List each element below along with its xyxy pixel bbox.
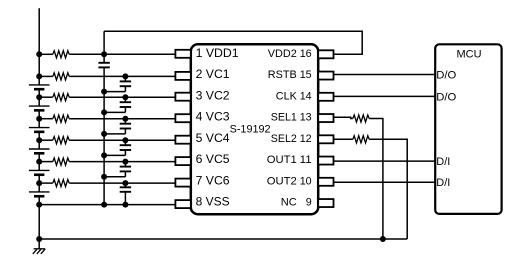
svg-text:10: 10 <box>300 175 312 187</box>
svg-text:CLK: CLK <box>276 90 298 102</box>
svg-text:D/I: D/I <box>436 156 450 168</box>
svg-text:8 VSS: 8 VSS <box>196 195 230 209</box>
svg-text:SEL1: SEL1 <box>271 112 297 124</box>
svg-text:13: 13 <box>300 112 312 124</box>
svg-text:9: 9 <box>306 197 312 209</box>
svg-text:2 VC1: 2 VC1 <box>196 67 230 81</box>
svg-text:15: 15 <box>300 69 312 81</box>
svg-text:D/I: D/I <box>436 177 450 189</box>
svg-text:3 VC2: 3 VC2 <box>196 88 230 102</box>
svg-text:16: 16 <box>300 48 312 60</box>
svg-text:D/O: D/O <box>436 69 456 81</box>
svg-text:D/O: D/O <box>436 91 456 103</box>
svg-text:NC: NC <box>281 197 297 209</box>
svg-text:12: 12 <box>300 133 312 145</box>
svg-text:OUT1: OUT1 <box>267 154 297 166</box>
svg-text:1 VDD1: 1 VDD1 <box>196 46 239 60</box>
svg-text:RSTB: RSTB <box>268 69 297 81</box>
svg-text:OUT2: OUT2 <box>267 175 297 187</box>
svg-text:S-19192: S-19192 <box>230 124 271 136</box>
svg-text:4 VC3: 4 VC3 <box>196 110 230 124</box>
svg-text:5 VC4: 5 VC4 <box>196 131 230 145</box>
svg-text:14: 14 <box>300 90 312 102</box>
svg-text:SEL2: SEL2 <box>271 133 297 145</box>
svg-text:11: 11 <box>300 154 312 166</box>
svg-text:7 VC6: 7 VC6 <box>196 173 230 187</box>
svg-text:VDD2: VDD2 <box>268 48 297 60</box>
svg-text:MCU: MCU <box>457 48 482 60</box>
svg-text:6 VC5: 6 VC5 <box>196 152 230 166</box>
